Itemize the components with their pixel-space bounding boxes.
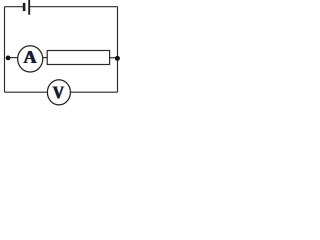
battery cell: short thick negative plate (23, 3, 26, 11)
wire: stub from left junction to ammeter (8, 57, 18, 59)
wire: right vertical side of outer loop (117, 7, 119, 93)
svg-text:A: A (24, 47, 37, 67)
node: left junction dot (6, 56, 11, 61)
wire: top horizontal, right segment from battery to right corner (29, 6, 117, 8)
ammeter label A (23, 47, 37, 67)
battery cell: long thin positive plate (28, 0, 30, 15)
node: right junction dot (115, 56, 120, 61)
wire: stub from resistor to right junction (110, 57, 116, 59)
wire: top horizontal, left segment to battery (5, 6, 23, 8)
svg-text:V: V (53, 83, 65, 103)
ammeter A1 circle (18, 46, 43, 72)
wire: bottom horizontal of voltmeter branch (5, 91, 118, 93)
resistor R1 rectangle (47, 51, 109, 65)
voltmeter label V (52, 83, 65, 103)
wire: left vertical side of outer loop (4, 7, 6, 93)
wire: stub from ammeter to resistor (43, 57, 48, 59)
voltmeter V1 circle (47, 80, 70, 105)
